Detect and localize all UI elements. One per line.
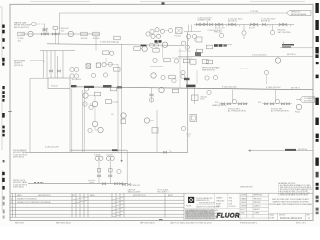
header note text [198,17,213,21]
dark dash on line [141,45,147,47]
off-page connector VENT TO ATM [286,10,311,16]
svg-text:FORM E-210 REV 2: FORM E-210 REV 2 [240,223,257,225]
stub line [214,44,232,46]
flag from waste holdup [13,149,28,159]
svg-text:2"-WG-121: 2"-WG-121 [131,185,140,187]
disclaimer paragraph [185,209,215,219]
line labels above [186,85,196,88]
svg-text:- - - - - - -: - - - - - - - [240,67,248,69]
twin bubbles at riser [186,34,190,38]
svg-text:PI-111: PI-111 [295,112,300,114]
valve pair 2 with actuator [52,33,55,35]
table header texts [17,194,174,197]
svg-text:ISSUED FOR CONSTRUCTION REV A: ISSUED FOR CONSTRUCTION REV A [17,201,51,204]
svg-text:0: 0 [11,198,12,200]
approvals grid [240,193,269,220]
tank inlet risers [51,51,63,78]
svg-text:N.C.: N.C. [258,102,262,104]
header drop pair [189,25,192,32]
svg-text:APPD: APPD [168,194,174,197]
svg-text:VENDOR PKG: VENDOR PKG [240,186,253,188]
svg-text:LT-101: LT-101 [113,102,119,104]
svg-text:2"-SC-105-150#: 2"-SC-105-150# [208,30,223,32]
skid bottom line [30,151,188,153]
page left scan edge [1,7,3,210]
svg-text:DESCRIPTION: DESCRIPTION [38,195,51,197]
tank TK-101 [48,78,70,89]
lower cluster [151,73,156,78]
small valve on skid bottom line [163,151,166,153]
boxes below cond line [190,60,196,65]
drop below skid at 121.5 [121,152,123,160]
svg-text:DATE: DATE [90,194,95,197]
instrument bubble FI [68,31,73,36]
level column pair [118,44,122,152]
second outlet pair [83,90,85,152]
recycle header pipe [194,24,294,26]
svg-text:2"-VT-106: 2"-VT-106 [250,11,258,13]
station 2 drop [275,90,277,101]
svg-text:TK-101: TK-101 [51,85,58,87]
svg-text:DESCRIPTION: DESCRIPTION [133,195,146,197]
svg-text:CIVIL: CIVIL [241,213,245,215]
main process pipe [20,33,100,35]
svg-text:AT 2 PSIG (NOTE 8): AT 2 PSIG (NOTE 8) [228,109,246,112]
station 1 valve row [219,103,248,105]
right margin binder marks [315,3,318,214]
svg-text:SHT 1 OF 1: SHT 1 OF 1 [296,223,306,225]
svg-text:BLDG (NOTE 2): BLDG (NOTE 2) [14,27,29,29]
text labels below border [15,222,306,225]
bubbles below [149,43,153,47]
svg-text:10-12-93: 10-12-93 [229,206,236,208]
stub blobs [214,44,218,47]
svg-text:MILLSTONE UNIT 3 NUCLEAR PLANT: MILLSTONE UNIT 3 NUCLEAR PLANT [272,198,309,201]
svg-text:(NOTE 5): (NOTE 5) [287,54,296,56]
svg-text:PY-101: PY-101 [175,35,181,37]
svg-text:N.O.: N.O. [215,102,219,104]
parallel pump suction header [70,149,127,151]
valve row on header [196,23,199,25]
svg-text:3/4"-IA-110: 3/4"-IA-110 [72,78,81,81]
drop from suction header to feed line [126,150,128,184]
bubble cluster [150,29,154,33]
column lines [12,193,14,217]
branch link [106,58,118,64]
svg-text:CHECK: CHECK [241,202,246,204]
cluster on level column [121,113,126,118]
instrument bubble PI-101 [28,31,33,36]
fluor company logo square [188,197,194,203]
svg-text:(NOTE 4): (NOTE 4) [261,21,270,23]
project title [269,198,312,206]
drain line right [280,47,313,49]
drop with PSV right [272,25,274,31]
box-circle pair on branch [103,51,114,55]
compressor tag blobs [155,40,158,43]
riser valves [49,70,52,72]
svg-text:EWR-CE-46612-001: EWR-CE-46612-001 [280,217,303,220]
svg-text:ISSUED FOR DESIGN: ISSUED FOR DESIGN [17,198,37,200]
signal drop [44,24,46,31]
station 2 valve row [262,103,292,105]
company text lines [196,197,220,208]
border centre tick left [8,111,12,113]
tag box left of cluster [114,36,120,44]
dashed signal line [37,23,45,25]
small marks [186,134,191,136]
stacked circles left [181,70,185,74]
double box [190,115,197,122]
left margin binder marks [2,25,4,219]
solenoid box [176,28,183,34]
svg-text:ATMOSPHERE: ATMOSPHERE [291,13,307,16]
tick drop at 96 [95,35,97,50]
PI bubble below [296,104,301,109]
svg-text:FLUOR: FLUOR [217,212,240,219]
svg-text:(NOTE 7): (NOTE 7) [291,88,300,90]
level controller bubble [144,118,149,123]
svg-text:LINE (NOTE 6): LINE (NOTE 6) [202,70,215,72]
svg-text:XV-102: XV-102 [93,38,100,40]
svg-text:SET 150 PSIG: SET 150 PSIG [278,32,292,34]
flame arrestor blob [195,52,201,56]
control valve on riser [43,29,46,31]
PI bubble [275,58,280,63]
tag box FE [18,32,25,42]
svg-text:(NOTE 10): (NOTE 10) [298,149,308,151]
level valve bubble [181,126,185,130]
svg-text:4"-WS-120-150#: 4"-WS-120-150# [45,147,60,149]
svg-text:1: 1 [11,202,12,204]
label note top-left 3 lines [14,21,31,29]
level column lower vertical [156,110,158,152]
check valves on feed [102,183,105,185]
svg-text:PROCESS: PROCESS [254,198,261,200]
vent header line to atmosphere [60,12,286,14]
drawn/checked column [216,197,235,208]
svg-text:(FC): (FC) [201,99,205,101]
svg-text:3"-WG-110-150#: 3"-WG-110-150# [222,87,238,89]
svg-text:REF DWG 46610: REF DWG 46610 [56,223,71,225]
connect stubs [89,96,98,131]
second feed line [28,183,127,185]
svg-text:DLW: DLW [229,203,233,205]
box-circle pair A [134,46,148,51]
svg-text:REF DWG: REF DWG [15,223,24,225]
svg-text:GREENVILLE SC: GREENVILLE SC [196,200,210,202]
svg-text:ELECT: ELECT [241,209,246,211]
tag blob [103,85,112,88]
tank outlet pair down [70,89,72,153]
svg-text:C-101: C-101 [114,42,120,44]
svg-text:WASTE GAS PROCESSING SYSTEM: WASTE GAS PROCESSING SYSTEM [273,201,309,204]
valve pair 1 [41,33,44,35]
svg-text:STEAM COND: STEAM COND [198,19,212,22]
compressor suction pipe [47,44,183,46]
tick marks under header [216,25,291,27]
svg-text:2"-DC-103-150#: 2"-DC-103-150# [252,54,267,56]
vent stub pair [43,28,48,33]
nitrogen header pipe [40,50,75,52]
vertical at 180 [179,48,181,88]
hatch diagonals in sign-off columns [72,197,123,217]
svg-text:SYSTEM: SYSTEM [304,101,312,103]
svg-text:PROJECT: PROJECT [254,202,261,204]
svg-text:REF DWG 46611: REF DWG 46611 [140,223,155,225]
level transmitter bubbles [92,101,97,106]
valve drop mid [194,89,196,105]
page top scan edge [30,0,305,2]
border centre tick bottom [159,219,163,221]
small bubbles right of risers [70,67,74,71]
drop from note [207,21,209,25]
table frame rows [10,192,184,194]
svg-text:AT 2 PSIG (NOTE 8): AT 2 PSIG (NOTE 8) [271,109,289,112]
leader line [30,61,44,63]
bottom right return line [251,150,314,152]
compressor discharge header [75,87,313,90]
mid cluster boxes [153,49,159,53]
light vertical at 197 [196,70,198,84]
sample oval [31,22,36,25]
station 1 drop [232,90,234,101]
feed riser marks [117,169,121,173]
skid boundary [30,78,48,152]
connectors main line to second line [56,35,59,43]
tiny labels under header [215,28,256,30]
svg-text:CLIENT: CLIENT [254,213,259,215]
positioner box [152,128,158,134]
svg-text:NONE: NONE [269,218,275,220]
drop with PSV left [243,25,245,40]
cross header y=31.6 [184,31,201,33]
circles near riser [182,41,186,45]
main riser [187,32,189,153]
svg-text:PIPING AND INSTRUMENTATION DIA: PIPING AND INSTRUMENTATION DIAGRAM [269,203,312,206]
border centre tick top (diamond) [162,2,165,5]
right text rows [282,44,294,46]
N2 supply label [14,60,25,67]
light vertical at 162.5 [162,46,164,58]
relay bubble [168,28,172,32]
svg-text:HV-101: HV-101 [81,38,89,40]
svg-text:N.C. FO: N.C. FO [249,28,256,30]
svg-text:(NOTE 3): (NOTE 3) [14,65,23,67]
svg-text:3"-WG-111-150#: 3"-WG-111-150# [266,87,282,89]
svg-text:CHECKED: CHECKED [216,201,225,203]
solenoid box on riser [196,37,202,42]
left column off line [151,88,153,102]
drain circle right of riser [207,90,211,94]
box-circle row above bridle [72,62,120,81]
svg-text:ENGR: ENGR [216,203,222,205]
second feed flag [13,180,28,189]
svg-text:6. VENDOR PACKAGE SCOPE LIMITS: 6. VENDOR PACKAGE SCOPE LIMITS [278,194,309,197]
svg-text:DATE: DATE [17,194,22,197]
overflow line label blob [71,85,77,87]
svg-text:(NOTE 4): (NOTE 4) [228,21,237,23]
svg-text:DRAWN: DRAWN [216,197,223,200]
svg-text:CAD PLOT 46612-001.DWG PLOTTE: CAD PLOT 46612-001.DWG PLOTTED 10-12-93 [170,222,211,225]
bubble on line [159,87,164,92]
riser stub at 186 [185,79,187,88]
vent riser [59,13,61,34]
svg-text:N.C.: N.C. [61,31,65,33]
level bridle small bubbles [84,87,88,91]
svg-text:DWG 46610: DWG 46610 [13,157,25,159]
svg-text:DWG 46611: DWG 46611 [13,187,25,189]
riser drops [44,51,48,78]
svg-text:DESIGN: DESIGN [241,195,247,197]
svg-text:STRESS: STRESS [241,206,247,208]
drawing number strip [269,212,314,214]
tag box at line end [93,32,100,40]
cluster links [150,30,169,36]
svg-text:REV: REV [307,214,310,216]
small bubble w/ stem [264,70,268,74]
revision row entries [11,198,51,204]
condensate line [178,56,313,58]
tag box LT [105,100,118,104]
sample connector right [296,99,302,101]
svg-text:3333 MICHELSON DR: 3333 MICHELSON DR [199,202,216,204]
title block top line [184,192,313,194]
tag box mid [81,32,89,40]
tag box [110,87,116,91]
